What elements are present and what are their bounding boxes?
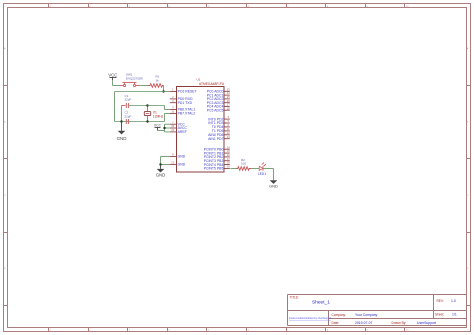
svg-text:19: 19 — [227, 165, 230, 169]
svg-text:U1: U1 — [197, 78, 201, 82]
junction GND pins — [159, 163, 161, 165]
svg-text:Date:: Date: — [332, 321, 340, 325]
pin 26 PC3 ADC3 — [224, 102, 230, 104]
pin 3 PD1 TXD — [170, 102, 177, 104]
pin 16 PCINT2 PB2 — [224, 156, 230, 158]
svg-text:22pF: 22pF — [125, 98, 132, 102]
svg-text:1.0: 1.0 — [451, 299, 456, 303]
junction RESET node — [162, 90, 164, 92]
wire SW1 to R1 — [140, 85, 149, 87]
pin 6 T0 PD4 — [224, 126, 230, 128]
wire C1 right to crystal — [129, 105, 147, 107]
svg-text:AIN1 PD7: AIN1 PD7 — [208, 137, 223, 141]
wire C1 down to rail — [121, 106, 123, 122]
svg-text:10: 10 — [171, 110, 174, 114]
svg-text:16: 16 — [227, 153, 230, 157]
svg-text:20: 20 — [171, 124, 174, 128]
svg-text:17: 17 — [227, 157, 230, 161]
svg-text:24: 24 — [227, 91, 230, 95]
pin 23 PC0 ADC0 — [224, 90, 230, 92]
svg-text:D: D — [467, 268, 469, 270]
svg-text:B: B — [467, 122, 469, 124]
svg-text:UserSupport: UserSupport — [417, 321, 436, 325]
junction AVCC tie — [163, 127, 165, 129]
pin 15 PCINT1 PB1 — [224, 152, 230, 154]
capacitor C1 22pF — [122, 103, 129, 108]
svg-text:GND: GND — [178, 163, 186, 167]
wire corner down — [273, 169, 275, 181]
svg-text:2019-07-07: 2019-07-07 — [355, 321, 372, 325]
svg-text:ATMEGA48P-PU: ATMEGA48P-PU — [199, 82, 225, 86]
wire bottom ground rail — [115, 121, 165, 123]
svg-text:15: 15 — [227, 149, 230, 153]
svg-text:GND: GND — [156, 173, 166, 178]
svg-text:D: D — [4, 268, 6, 270]
wire R2 to LED1 — [251, 168, 259, 170]
svg-text:A: A — [467, 47, 469, 50]
svg-text:5: 5 — [228, 119, 230, 123]
wire GND pins vertical — [160, 157, 162, 165]
pin 9 PB6 XTAL1 — [170, 109, 177, 111]
ground GND (IC) — [160, 165, 162, 169]
wire XTAL2 jog — [164, 114, 166, 122]
pin 14 PCINT0 PB0 — [224, 148, 230, 150]
svg-text:2: 2 — [172, 95, 174, 99]
svg-text:EVQ22705R: EVQ22705R — [126, 76, 144, 80]
svg-text:22: 22 — [171, 161, 174, 165]
svg-text:LED1: LED1 — [258, 172, 266, 176]
svg-text:9: 9 — [172, 106, 174, 110]
svg-text:22pF: 22pF — [125, 114, 132, 118]
svg-text:11: 11 — [227, 127, 230, 131]
svg-text:A: A — [4, 47, 6, 50]
wire XTAL1 jog — [148, 105, 165, 107]
svg-text:21: 21 — [171, 128, 174, 132]
ground GND oscillator — [121, 122, 123, 131]
power flag VCC (top-left) — [108, 72, 117, 80]
svg-text:Your Company: Your Company — [355, 313, 378, 317]
svg-text:28: 28 — [227, 106, 230, 110]
resistor R2 100 — [237, 167, 252, 171]
svg-text:PCINT5 PB5: PCINT5 PB5 — [204, 167, 224, 171]
svg-text:PD1 TXD: PD1 TXD — [178, 101, 193, 105]
pin 5 INT1 PD3 — [224, 122, 230, 124]
junction crystal bottom — [146, 120, 148, 122]
svg-text:14: 14 — [227, 145, 230, 149]
svg-text:REV:: REV: — [437, 299, 444, 303]
pin 1 PC6 RESET — [170, 91, 177, 93]
svg-text:13: 13 — [227, 135, 230, 139]
pin 13 AIN1 PD7 — [224, 138, 230, 140]
wire R1 corner down — [163, 86, 165, 92]
wire GND pin 22 — [161, 164, 170, 166]
wire VCC/AVCC/AREF tie — [164, 124, 166, 132]
svg-text:100: 100 — [241, 161, 246, 165]
svg-text:Sheet_1: Sheet_1 — [312, 299, 330, 305]
svg-text:1/1: 1/1 — [452, 313, 457, 317]
svg-text:VCC: VCC — [154, 123, 162, 127]
svg-text:1k: 1k — [156, 78, 160, 82]
svg-text:C: C — [467, 195, 469, 197]
junction crystal top — [146, 104, 148, 106]
wire GND pin 8 — [161, 156, 170, 158]
pin 24 PC1 ADC1 — [224, 94, 230, 96]
crystal X1 12MHz — [144, 106, 150, 122]
svg-text:GND: GND — [269, 183, 278, 188]
pin 17 PCINT3 PB3 — [224, 160, 230, 162]
pin 28 PC5 ADC5 — [224, 109, 230, 111]
wire junction to pin 1 — [164, 91, 170, 93]
svg-text:PC6 RESET: PC6 RESET — [178, 90, 198, 94]
svg-text:8: 8 — [172, 153, 174, 157]
svg-text:TITLE:: TITLE: — [290, 295, 300, 299]
pin 27 PC4 ADC4 — [224, 105, 230, 107]
wire RESET top rail — [115, 91, 164, 93]
ground GND (LED) — [270, 180, 278, 184]
pin 22 GND — [170, 164, 177, 166]
resistor R1 1k — [149, 84, 164, 88]
svg-text:GND: GND — [178, 155, 186, 159]
svg-text:23: 23 — [227, 87, 230, 91]
svg-text:18: 18 — [227, 161, 230, 165]
svg-text:AREF: AREF — [178, 130, 187, 134]
capacitor C2 22pF — [126, 119, 128, 124]
pin 2 PD0 RXD — [170, 98, 177, 100]
svg-text:25: 25 — [227, 95, 230, 99]
svg-text:12: 12 — [227, 131, 230, 135]
switch SW1 EVQ22705R — [120, 83, 141, 87]
svg-text:26: 26 — [227, 99, 230, 103]
svg-text:PB7 XTAL2: PB7 XTAL2 — [178, 112, 196, 116]
svg-text:B: B — [4, 122, 6, 124]
wire left vertical rail — [114, 92, 116, 122]
pin 7 VCC — [170, 123, 177, 125]
pin 20 AVCC — [170, 127, 177, 129]
svg-text:lceda.cn/editor/a/drawn-by-Use: lceda.cn/editor/a/drawn-by-UserSupport — [289, 317, 332, 320]
svg-text:27: 27 — [227, 103, 230, 107]
pin 19 PCINT5 PB5 — [224, 168, 230, 170]
wire pin 19 to R2 — [231, 168, 237, 170]
svg-text:6: 6 — [228, 123, 230, 127]
svg-text:VCC: VCC — [108, 72, 117, 77]
svg-text:Company:: Company: — [332, 313, 347, 317]
title block — [288, 295, 467, 326]
svg-text:7: 7 — [172, 120, 174, 124]
pin 21 AREF — [170, 131, 177, 133]
IC U1 ATMEGA48P-PU body — [177, 87, 225, 173]
wire VCC to SW1 — [112, 80, 114, 85]
svg-text:C: C — [4, 195, 6, 197]
pin 4 INT0 PD2 — [224, 118, 230, 120]
junction C1/rail — [120, 120, 122, 122]
LED LED1 — [259, 162, 266, 171]
pin 12 AIN0 PD6 — [224, 134, 230, 136]
svg-text:4: 4 — [228, 115, 230, 119]
svg-text:3: 3 — [172, 99, 174, 103]
wire LED1 to corner — [263, 168, 274, 170]
svg-text:PC5 ADC5: PC5 ADC5 — [207, 108, 224, 112]
pin 25 PC2 ADC2 — [224, 98, 230, 100]
pin 10 PB7 XTAL2 — [170, 113, 177, 115]
svg-text:Drawn By:: Drawn By: — [392, 321, 407, 325]
svg-text:12MHz: 12MHz — [153, 114, 164, 118]
pin 11 T1 PD5 — [224, 130, 230, 132]
svg-text:1: 1 — [172, 88, 174, 92]
wire VCC flag to tie — [158, 130, 165, 132]
pin 8 GND — [170, 156, 177, 158]
svg-text:Sheet:: Sheet: — [435, 313, 444, 317]
svg-text:GND: GND — [117, 136, 127, 141]
pin 18 PCINT4 PB4 — [224, 164, 230, 166]
